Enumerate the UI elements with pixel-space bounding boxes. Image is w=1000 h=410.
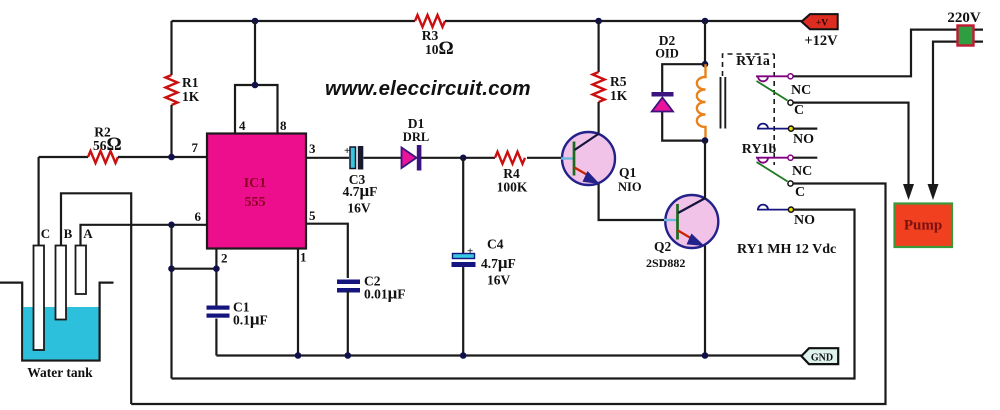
IC U1 555 body [207, 134, 306, 249]
svg-text:OID: OID [655, 47, 679, 61]
svg-text:B: B [64, 226, 73, 241]
svg-text:1K: 1K [182, 89, 200, 104]
relay core lines [720, 77, 722, 129]
svg-text:2: 2 [221, 251, 228, 266]
capacitor C2 [337, 280, 360, 285]
node junction Q2 emitter / rail [702, 352, 709, 359]
capacitor C3 electrolytic [350, 147, 356, 169]
svg-text:Q1: Q1 [619, 165, 637, 180]
svg-text:100K: 100K [497, 180, 528, 195]
wire pin 2 [172, 249, 217, 307]
svg-text:R5: R5 [610, 74, 627, 89]
svg-text:555: 555 [245, 195, 266, 210]
node junction C4 / rail [460, 352, 467, 359]
node junction R1 / pin7 wire [168, 154, 175, 161]
wire probe B riser and link [61, 193, 131, 404]
wire R1 bottom lead [170, 105, 172, 157]
wire R2 to pin 7 [118, 156, 207, 158]
resistor R2 [88, 151, 118, 163]
relay dashed box [723, 54, 775, 165]
wire pin6-pin2 link [170, 225, 172, 379]
wire D1 to R4 [421, 157, 495, 159]
relay coil RY1 [697, 64, 706, 140]
svg-text:0.01μF: 0.01μF [364, 284, 406, 303]
resistor R5 [593, 72, 605, 102]
node junction top rail / R5 [595, 18, 602, 25]
wire C1 bottom lead [215, 319, 217, 356]
badge +V [802, 14, 838, 29]
svg-text:NIO: NIO [618, 180, 642, 194]
svg-text:Pump: Pump [904, 218, 942, 234]
svg-text:2SD882: 2SD882 [646, 256, 685, 270]
wire R5 top lead [597, 21, 599, 72]
node junction pin6 wire [168, 222, 175, 229]
svg-text:4.7μF: 4.7μF [343, 181, 378, 200]
wire pin 1 [297, 249, 299, 356]
transistor Q2 [664, 195, 718, 248]
wire C3 to D1 [364, 157, 402, 159]
wire R1 top lead [170, 21, 172, 75]
svg-text:D1: D1 [408, 116, 425, 131]
svg-text:16V: 16V [487, 273, 511, 288]
svg-text:RY1 MH 12 Vdc: RY1 MH 12 Vdc [737, 242, 836, 257]
svg-text:www.eleccircuit.com: www.eleccircuit.com [325, 77, 531, 100]
water tank walls [0, 283, 114, 361]
svg-text:Q2: Q2 [654, 239, 672, 254]
resistor R1 [166, 75, 178, 105]
arrow to pump left [903, 184, 914, 200]
svg-text:C: C [795, 185, 805, 200]
probe B [56, 246, 67, 320]
wire RY1b NC stub [794, 157, 818, 159]
svg-text:Water tank: Water tank [27, 365, 93, 380]
relay contact RY1a NC [756, 74, 793, 101]
node junction pin4/8 bracket [252, 82, 259, 89]
svg-text:RY1a: RY1a [736, 54, 770, 69]
svg-text:+V: +V [816, 19, 828, 29]
svg-text:0.1μF: 0.1μF [233, 310, 268, 329]
wire C4 bottom lead [462, 267, 464, 356]
wire RY1b C long loop [131, 184, 885, 405]
svg-text:NO: NO [794, 213, 815, 228]
svg-text:1K: 1K [610, 88, 628, 103]
svg-text:16V: 16V [347, 201, 371, 216]
wire IC pins 4-8 supply branch [235, 21, 278, 134]
svg-text:+: + [467, 246, 473, 258]
svg-text:4: 4 [239, 118, 246, 133]
svg-text:NC: NC [791, 83, 811, 98]
relay contact RY1a C terminal [788, 100, 793, 105]
node junction C2 / rail [345, 352, 352, 359]
wire pin 5 to C2 [306, 224, 348, 278]
svg-text:RY1b: RY1b [742, 142, 777, 157]
svg-text:C: C [794, 103, 804, 118]
wire top rail right segment [445, 20, 802, 22]
capacitor C4 electrolytic [453, 254, 475, 259]
wire C2 bottom lead [347, 291, 349, 356]
svg-text:56Ω: 56Ω [93, 134, 122, 155]
transistor Q1 [561, 132, 615, 185]
svg-text:GND: GND [811, 353, 833, 364]
capacitor C1 [207, 306, 230, 310]
svg-text:C: C [41, 226, 50, 241]
node junction pin1 / rail [295, 352, 302, 359]
wire top rail left segment [172, 20, 416, 22]
node junction top rail / IC supply [252, 18, 259, 25]
node junction pin2 / C1 [213, 265, 220, 272]
wire C4 top lead [462, 158, 464, 253]
svg-text:A: A [83, 226, 93, 241]
svg-text:IC1: IC1 [244, 176, 267, 191]
wire R5 bottom lead [597, 102, 599, 133]
badge GND [801, 348, 838, 364]
relay contact RY1b NO [757, 205, 794, 213]
node junction pin2 link [168, 265, 175, 272]
svg-text:5: 5 [309, 208, 316, 223]
node junction coil bottom [702, 137, 709, 144]
wire RY1b NO loop [172, 210, 855, 379]
relay contact RY1b C terminal [788, 181, 793, 186]
svg-text:NC: NC [792, 164, 812, 179]
wire relay branch top [704, 21, 706, 64]
node junction D1 / C4 [460, 155, 467, 162]
svg-text:8: 8 [280, 118, 287, 133]
svg-text:220V: 220V [947, 10, 981, 26]
arrow to pump right [928, 184, 939, 200]
water fill [23, 307, 98, 360]
svg-text:+: + [344, 145, 350, 157]
relay contact RY1b NC [756, 155, 793, 181]
wire RY1a NC to 220V [794, 30, 984, 77]
svg-text:10Ω: 10Ω [425, 38, 454, 59]
svg-text:4.7μF: 4.7μF [481, 253, 516, 272]
svg-text:1: 1 [300, 250, 307, 265]
diode D2 [652, 92, 674, 97]
pump box [895, 204, 953, 248]
wire pin7 left lead [39, 156, 88, 158]
wire 220V second line [933, 42, 983, 186]
svg-text:+12V: +12V [804, 33, 838, 49]
wire RY1a C to pump [794, 103, 909, 186]
svg-text:C4: C4 [487, 237, 504, 252]
node junction coil top [702, 61, 709, 68]
wire RY1a NO stub [794, 128, 817, 130]
wire pin 3 to C3 [306, 157, 349, 159]
terminal 220V connector [958, 26, 974, 46]
diode D1 [402, 148, 417, 169]
wire D2 loop [662, 64, 705, 140]
svg-text:NO: NO [793, 132, 814, 147]
wire Q2 collector [704, 141, 706, 199]
wire probe A riser to pin 6 [81, 225, 208, 246]
resistor R3 [415, 15, 445, 27]
svg-text:R3: R3 [422, 28, 439, 43]
svg-text:R1: R1 [182, 75, 199, 90]
wire Q2 emitter to rail [704, 246, 706, 356]
relay contact RY1a NO [757, 124, 794, 132]
svg-text:7: 7 [192, 140, 199, 155]
wire probe C riser [37, 157, 39, 246]
wire ground rail [216, 354, 801, 356]
probe A [76, 246, 87, 295]
resistor R4 [495, 152, 525, 164]
wire R4 to Q1 [527, 157, 562, 159]
node junction top rail / relay [702, 18, 709, 25]
svg-text:DRL: DRL [403, 130, 429, 144]
svg-text:6: 6 [195, 209, 202, 224]
svg-text:3: 3 [309, 141, 316, 156]
probe C [34, 246, 45, 351]
wire Q1 emitter to Q2 base [599, 184, 664, 220]
